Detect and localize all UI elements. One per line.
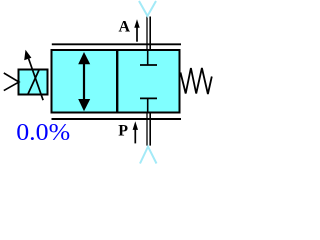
port A flow marker <box>139 1 156 16</box>
proportional solenoid body <box>19 70 48 95</box>
flow arrow bottom head <box>78 99 90 111</box>
valve position divider <box>116 49 118 114</box>
lower frame line <box>52 118 182 120</box>
solenoid diagonal <box>28 70 39 94</box>
svg-text:P: P <box>118 122 128 139</box>
blocked port T top stem <box>147 50 149 65</box>
label P arrow shaft <box>134 128 136 143</box>
flow arrow (left cell) shaft <box>83 60 85 102</box>
svg-text:A: A <box>119 19 131 36</box>
flow arrow top head <box>78 52 90 64</box>
label A arrow shaft <box>136 25 138 42</box>
port A pipe left line <box>146 17 148 51</box>
proportional arrow shaft <box>29 59 43 101</box>
opening percentage label <box>16 120 70 146</box>
return spring <box>181 68 212 94</box>
upper frame line <box>52 43 181 45</box>
blocked port T bottom stem <box>147 98 149 112</box>
port P flow marker <box>140 147 157 164</box>
blocked port T top bar <box>140 64 157 66</box>
port P pipe left line <box>146 113 148 146</box>
proportional arrow head <box>24 50 31 61</box>
port A pipe right line <box>149 17 151 51</box>
electrical input chevron <box>4 73 19 91</box>
blocked port T bottom bar <box>140 97 157 99</box>
svg-text:0.0%: 0.0% <box>16 120 70 146</box>
valve body U1 <box>52 50 180 113</box>
port P pipe right line <box>149 113 151 146</box>
label A arrow head <box>134 19 139 28</box>
label P arrow head <box>133 121 138 130</box>
